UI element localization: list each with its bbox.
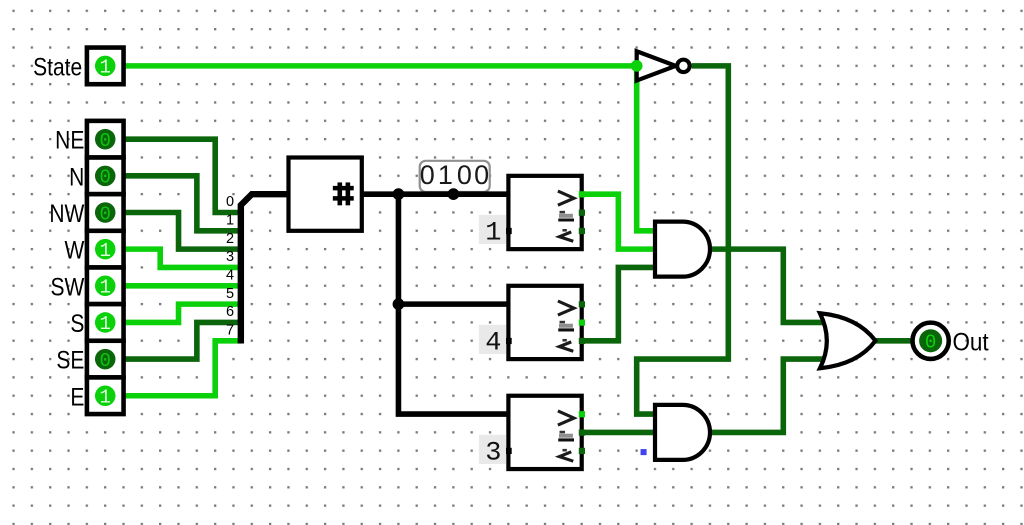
comparator U4 box	[508, 396, 581, 469]
svg-text:7: 7	[226, 323, 234, 339]
wire: SE pin to splitter bit 6	[121, 322, 242, 359]
comparator U4 gt glyph	[558, 411, 574, 425]
constant K1 value 1	[479, 215, 506, 244]
comparator U3 input B stub	[505, 338, 511, 344]
constant K3 value 3	[479, 435, 506, 464]
svg-text:NW: NW	[49, 199, 84, 227]
comparator U3 output stubs	[579, 301, 585, 307]
wire: E pin to splitter bit 7	[121, 341, 242, 396]
wire: NW pin to splitter bit 2	[121, 212, 242, 249]
AND gate G3	[655, 405, 710, 460]
wire: bus branch to comparator 4 input A	[398, 303, 508, 306]
pin S	[87, 304, 124, 341]
AND gate G3 floating input stub	[641, 449, 647, 455]
svg-text:1: 1	[100, 57, 111, 79]
svg-text:0: 0	[226, 194, 234, 210]
comparator U2 output stubs	[579, 191, 585, 197]
svg-text:2: 2	[226, 231, 234, 247]
svg-text:0: 0	[100, 203, 111, 225]
svg-text:0: 0	[100, 350, 111, 372]
svg-text:1: 1	[438, 160, 453, 190]
svg-text:State: State	[33, 53, 82, 81]
bit adder U1 box	[288, 158, 361, 231]
wire: comparator 4 less output to AND1 input 3	[582, 267, 655, 340]
wire: W pin to splitter bit 3	[121, 249, 242, 267]
comparator U2 lt glyph	[562, 229, 566, 231]
svg-text:SE: SE	[56, 346, 84, 374]
comparator U2 box	[508, 176, 581, 249]
splitter SP1 bit labels 0-7	[226, 194, 234, 338]
splitter SP1 spine	[241, 194, 289, 343]
AND gate G2	[655, 222, 710, 277]
wire: State branch down to AND1 input 1	[637, 66, 655, 231]
svg-text:1: 1	[226, 213, 234, 229]
wire: comparator 1 greater output to AND1 input 2	[582, 194, 655, 249]
comparator U4 input B stub	[505, 448, 511, 454]
svg-text:3: 3	[485, 439, 501, 469]
pin SW	[87, 267, 124, 304]
wire: comparator 3 equal output to AND2 input 2	[582, 431, 655, 434]
svg-text:E: E	[70, 383, 84, 411]
wire: State pin to NOT gate input	[121, 64, 637, 67]
wire: N pin to splitter bit 1	[121, 176, 242, 231]
svg-text:1: 1	[100, 313, 111, 335]
pin NW	[87, 194, 124, 231]
pin N	[87, 158, 124, 195]
svg-text:4: 4	[485, 329, 501, 359]
wire: bus trunk down to comparator 3 input A	[398, 194, 508, 414]
svg-text:1: 1	[100, 387, 111, 409]
comparator U3 lt glyph	[562, 339, 566, 341]
comparator U3 box	[508, 286, 581, 359]
svg-text:4: 4	[226, 268, 234, 284]
comparator U4 eq glyph	[560, 431, 565, 433]
comparator U3 eq glyph	[560, 321, 565, 323]
bit adder U1 # glyph	[333, 182, 354, 205]
comparator U2 eq glyph	[560, 211, 565, 213]
comparator U4 output stubs	[579, 411, 585, 417]
svg-text:0: 0	[420, 160, 435, 190]
comparator U2 gt glyph	[558, 191, 574, 205]
pin SE	[87, 341, 124, 378]
svg-text:1: 1	[485, 219, 501, 249]
svg-text:5: 5	[226, 286, 234, 302]
node: bus junction A	[393, 188, 405, 200]
wire: NOT output zigzag to AND2 input 1	[637, 66, 729, 414]
svg-text:Out: Out	[952, 329, 989, 357]
svg-text:6: 6	[226, 304, 234, 320]
svg-text:SW: SW	[51, 273, 85, 301]
comparator U4 lt glyph	[562, 449, 566, 451]
svg-text:N: N	[69, 163, 84, 191]
wire: AND1 output to OR input 1	[710, 249, 827, 322]
wire: NE pin to splitter bit 0	[121, 139, 242, 212]
wire: OR output to Out pin	[875, 339, 912, 342]
OR gate G4	[820, 313, 876, 368]
svg-text:0: 0	[457, 160, 472, 190]
svg-text:W: W	[65, 236, 85, 264]
probe PR1 body	[420, 161, 490, 192]
svg-text:0: 0	[925, 332, 936, 354]
node: probe junction	[448, 188, 460, 200]
NOT gate G1	[637, 51, 676, 80]
comparator U2 input B stub	[505, 228, 511, 234]
wire: SW pin to splitter bit 4	[121, 284, 242, 287]
svg-text:0: 0	[100, 167, 111, 189]
node: bus junction B	[393, 298, 405, 310]
pin W	[87, 231, 124, 268]
pin E	[87, 377, 124, 414]
pin NE	[87, 121, 124, 158]
svg-text:S: S	[70, 309, 84, 337]
svg-text:0: 0	[474, 160, 489, 190]
svg-text:NE: NE	[55, 126, 84, 154]
pin Out	[912, 323, 948, 359]
svg-text:3: 3	[226, 249, 234, 265]
pin State	[87, 48, 124, 85]
wire: AND2 output to OR input 2	[710, 359, 827, 432]
node: junction at NOT input	[631, 60, 643, 72]
wire: S pin to splitter bit 5	[121, 304, 242, 322]
constant K2 value 4	[479, 325, 506, 354]
probe PR1 value 0100	[420, 160, 489, 190]
svg-text:1: 1	[100, 240, 111, 262]
wire: bus # output to comparator 1 input A	[362, 193, 509, 196]
svg-text:0: 0	[100, 130, 111, 152]
comparator U3 gt glyph	[558, 301, 574, 315]
svg-text:1: 1	[100, 277, 111, 299]
